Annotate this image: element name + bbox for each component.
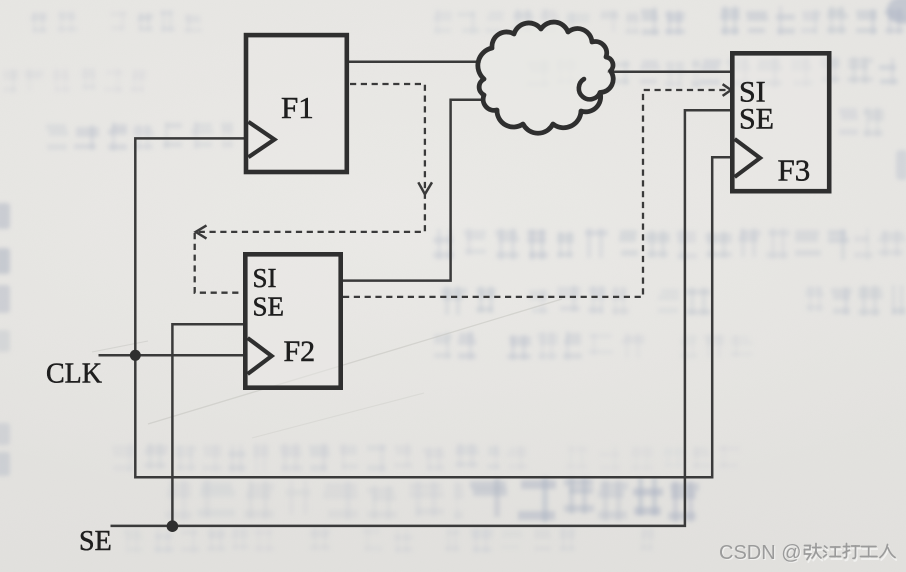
svg-text:F2: F2 bbox=[284, 335, 316, 368]
flip-flop F2 bbox=[245, 254, 340, 387]
svg-text:SE: SE bbox=[253, 292, 285, 322]
wire: SE branch up to F2 SE pin bbox=[172, 324, 244, 526]
arrowhead (right) into F3 SI pin bbox=[723, 84, 731, 96]
scan path F2 to F3 SI (dashed) bbox=[343, 90, 726, 297]
svg-text:F1: F1 bbox=[281, 90, 314, 125]
wire: CLK branch down and across to F3 clock pin bbox=[135, 157, 731, 477]
svg-text:SI: SI bbox=[253, 263, 277, 293]
arrowhead (left) on scan path F1-F2 bbox=[196, 225, 207, 238]
clock pin symbol of F3 bbox=[735, 139, 760, 177]
cloud: combinational logic bbox=[478, 22, 613, 133]
wire: Q output of F2 up to cloud input bbox=[343, 100, 483, 281]
wire: cloud output to F3 D input bbox=[607, 71, 731, 74]
wire: CLK branch up to F1 clock pin bbox=[135, 138, 244, 355]
junction dot on CLK net bbox=[130, 350, 141, 361]
scan path F1 to F2 SI (dashed) bbox=[195, 84, 425, 293]
svg-text:SE: SE bbox=[739, 103, 774, 136]
svg-text:CSDN @: CSDN @ bbox=[719, 542, 802, 564]
flip-flop F3 bbox=[732, 53, 829, 191]
svg-text:CLK: CLK bbox=[46, 359, 102, 390]
svg-text:F3: F3 bbox=[778, 153, 811, 188]
junction dot on SE net bbox=[167, 520, 179, 532]
svg-text:SE: SE bbox=[79, 526, 112, 557]
clock pin symbol of F2 bbox=[248, 338, 272, 374]
wire: Q output of F1 to cloud input bbox=[349, 61, 481, 64]
cloud inner curl stroke bbox=[579, 79, 600, 99]
wire: SE trunk from label across to F3 SE pin bbox=[111, 110, 732, 526]
arrowhead (down) on scan path F1-F2 bbox=[418, 182, 432, 194]
clock pin symbol of F1 bbox=[248, 122, 274, 157]
wire: CLK stub from label to F2 clock pin bbox=[99, 354, 245, 357]
flip-flop F1 bbox=[246, 35, 347, 172]
